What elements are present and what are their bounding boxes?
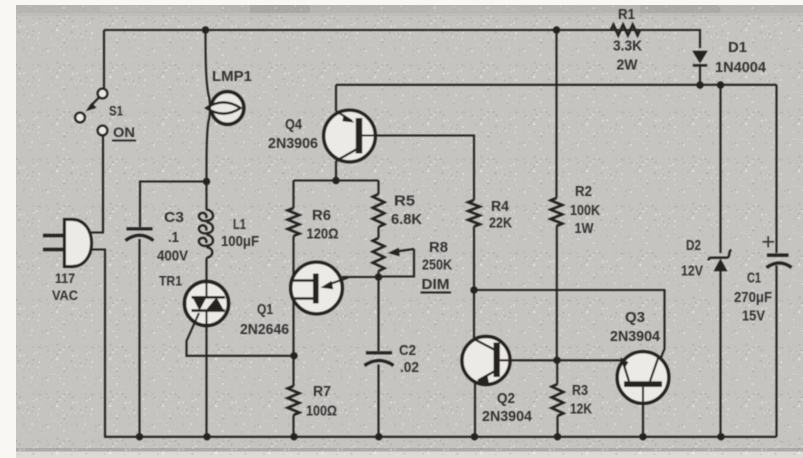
- svg-text:Q2: Q2: [497, 390, 515, 407]
- svg-text:L1: L1: [233, 217, 246, 233]
- label Q2: [497, 390, 515, 407]
- wire R2 lower lead: [556, 226, 558, 360]
- wire C1 lower lead: [775, 266, 777, 437]
- svg-text:D1: D1: [728, 39, 747, 56]
- label D2: [686, 237, 701, 254]
- junction lamp column / top rail: [202, 26, 209, 33]
- label ON: [112, 124, 136, 141]
- resistor R7: [288, 386, 300, 415]
- wire TR1 main column lower: [205, 310, 207, 437]
- label .02: [400, 359, 419, 376]
- label R5: [394, 193, 415, 210]
- label 100uF: [221, 234, 259, 250]
- svg-text:100μF: 100μF: [221, 234, 259, 250]
- junction C3 / bottom rail: [136, 433, 143, 440]
- svg-text:C3: C3: [164, 209, 184, 226]
- junction R4 / Q2 collector node: [470, 286, 477, 293]
- transistor Q2 2N3904: [462, 337, 510, 385]
- wire lamp column: [206, 30, 211, 182]
- junction TR1 / bottom rail: [203, 433, 210, 440]
- label VAC: [52, 288, 78, 303]
- label 1N4004: [715, 59, 767, 76]
- wire C2 upper lead: [377, 277, 379, 351]
- junction R7 / bottom rail: [290, 433, 297, 440]
- transistor Q1 2N2646: [291, 262, 348, 314]
- wire R1 left lead: [610, 29, 612, 31]
- transistor Q4 2N3906: [324, 110, 376, 162]
- resistor R6: [288, 208, 300, 236]
- svg-text:100Ω: 100Ω: [306, 403, 337, 420]
- potentiometer R8: [373, 238, 414, 277]
- label 120ohm: [307, 226, 339, 243]
- svg-text:R4: R4: [491, 198, 510, 215]
- label 2N3904 Q2: [482, 408, 533, 425]
- label R4: [491, 198, 510, 215]
- wire Q2-Q3 collector link: [474, 290, 665, 380]
- svg-text:2W: 2W: [617, 57, 639, 74]
- wire DC rail: [336, 84, 777, 86]
- svg-text:12V: 12V: [681, 263, 703, 280]
- svg-text:12K: 12K: [570, 401, 592, 418]
- wire Q4 collector to node: [335, 161, 337, 181]
- bottom scan edge band: [16, 448, 803, 452]
- wire C3 lower lead: [138, 239, 140, 437]
- capacitor C3: [126, 229, 154, 241]
- junction C2 / bottom rail: [375, 433, 382, 440]
- label 1W: [575, 220, 595, 237]
- svg-text:100K: 100K: [570, 202, 600, 219]
- svg-text:ON: ON: [113, 124, 135, 140]
- svg-text:1N4004: 1N4004: [715, 59, 767, 76]
- svg-text:S1: S1: [109, 103, 123, 119]
- svg-text:Q1: Q1: [257, 302, 273, 318]
- svg-text:D2: D2: [686, 237, 701, 254]
- svg-text:250K: 250K: [422, 257, 452, 274]
- wire R4 lower lead: [473, 227, 475, 291]
- svg-text:6.8K: 6.8K: [391, 211, 422, 228]
- label R8: [429, 239, 448, 256]
- label C2: [399, 342, 416, 359]
- junction gate / R7 node: [290, 352, 297, 359]
- label DIM: [421, 276, 452, 293]
- wire Q4 base lead: [362, 136, 474, 201]
- wire Q1 emitter lead: [342, 276, 379, 278]
- resistor R5: [373, 194, 385, 227]
- svg-text:2N3904: 2N3904: [610, 328, 661, 345]
- wire bottom rail: [104, 436, 777, 438]
- svg-text:1W: 1W: [575, 220, 595, 237]
- svg-text:Q4: Q4: [285, 116, 303, 133]
- svg-text:TR1: TR1: [159, 273, 182, 289]
- label Q4: [285, 116, 303, 133]
- label 12K: [570, 401, 592, 418]
- label L1: [233, 217, 246, 233]
- wire C1 upper lead: [775, 85, 777, 253]
- junction R2 column / top rail: [553, 26, 560, 33]
- junction D2 / bottom rail: [717, 433, 724, 440]
- inductor L1: [199, 210, 213, 259]
- label R3: [572, 382, 588, 399]
- wire Q2 emitter lead: [474, 382, 476, 437]
- wire top rail: [104, 29, 700, 31]
- svg-text:400V: 400V: [157, 248, 188, 265]
- label C1 plus: [763, 236, 775, 247]
- label 6.8K: [391, 211, 422, 228]
- svg-text:3.3K: 3.3K: [613, 38, 642, 55]
- svg-text:15V: 15V: [742, 308, 765, 325]
- label 270uF: [734, 289, 772, 306]
- label C1: [747, 270, 761, 287]
- junction lamp / C3 node: [203, 178, 210, 185]
- svg-text:.1: .1: [168, 229, 179, 246]
- label 2N3904 Q3: [610, 328, 661, 345]
- label R7: [313, 383, 331, 400]
- svg-text:2N3906: 2N3906: [268, 135, 318, 152]
- wire plug hot lead: [91, 136, 103, 233]
- resistor R1: [611, 25, 640, 35]
- wire R6 lower column: [292, 236, 294, 356]
- label R6: [312, 207, 331, 224]
- wire plug neutral lead: [91, 250, 105, 437]
- wire TR1 gate lead: [187, 313, 295, 356]
- label TR1: [159, 273, 182, 289]
- resistor R4: [468, 200, 480, 227]
- svg-text:LMP1: LMP1: [212, 69, 252, 85]
- wire Q2 collector lead: [473, 290, 475, 340]
- junction D2 / DC rail: [717, 81, 724, 88]
- label Q3: [625, 309, 645, 326]
- wire L1 upper lead: [205, 182, 207, 211]
- svg-text:R3: R3: [572, 382, 588, 399]
- wire D2 lower lead: [719, 271, 721, 437]
- wire R5 upper lead: [377, 181, 379, 195]
- label Q1: [257, 302, 273, 318]
- wire L1-TR1 lead: [205, 258, 207, 283]
- wire R1 right lead: [640, 30, 700, 48]
- wire C3 branch: [140, 182, 207, 228]
- wire TR1 MT2 lead: [205, 283, 207, 298]
- svg-text:R5: R5: [394, 193, 415, 210]
- svg-text:120Ω: 120Ω: [307, 226, 339, 243]
- svg-text:2N2646: 2N2646: [240, 322, 289, 338]
- wire Q2 base lead: [500, 359, 623, 361]
- junction R2-R3 / base link: [553, 357, 560, 364]
- plug P1 117VAC: [43, 220, 92, 267]
- svg-text:2N3904: 2N3904: [482, 408, 533, 425]
- wire S1 lower lead: [102, 136, 104, 233]
- label 22K: [489, 215, 512, 232]
- label 2W: [617, 57, 639, 74]
- label 2N3906: [268, 135, 318, 152]
- diode D1 1N4004: [692, 51, 707, 66]
- wire R2 upper lead: [555, 30, 557, 198]
- wire R5-R8 link: [377, 227, 379, 238]
- resistor R3: [552, 384, 564, 416]
- wire R3 lower lead: [556, 416, 558, 437]
- svg-text:C1: C1: [747, 270, 761, 287]
- label 117: [55, 271, 75, 286]
- label D1: [728, 39, 747, 56]
- junction Q3 / bottom rail: [639, 433, 646, 440]
- wire S1 upper lead: [103, 30, 105, 89]
- label 400V: [157, 248, 188, 265]
- label C3: [164, 209, 184, 226]
- wire R7 link: [292, 356, 294, 386]
- label R2: [575, 183, 592, 200]
- wire Q4 emitter lead: [335, 85, 337, 111]
- resistor R2: [551, 198, 563, 226]
- label R1: [618, 7, 635, 23]
- wire R3 upper lead: [556, 360, 558, 384]
- label 250K: [422, 257, 452, 274]
- switch S1: [75, 89, 107, 136]
- junction Q2 emitter / bottom rail: [471, 433, 478, 440]
- label 2N2646: [240, 322, 289, 338]
- junction Q4 collector node: [332, 177, 339, 184]
- lamp LMP1: [207, 92, 244, 125]
- svg-text:R1: R1: [618, 7, 635, 23]
- wire R6 upper lead: [292, 181, 294, 209]
- transistor Q3 2N3904: [617, 352, 669, 404]
- svg-text:R2: R2: [575, 183, 592, 200]
- label LMP1: [212, 69, 252, 85]
- svg-text:DIM: DIM: [422, 276, 450, 293]
- svg-text:VAC: VAC: [52, 288, 78, 303]
- junction R8 / C2 node: [375, 273, 382, 280]
- label 100ohm: [306, 403, 337, 420]
- capacitor C2: [365, 353, 394, 366]
- wire R6-R5 crossbar: [294, 179, 379, 181]
- label 12V: [681, 263, 703, 280]
- junction D1 / DC rail: [696, 81, 703, 88]
- svg-text:R7: R7: [313, 383, 331, 400]
- svg-text:270μF: 270μF: [734, 289, 772, 306]
- label 15V: [742, 308, 765, 325]
- svg-text:.02: .02: [400, 359, 419, 376]
- wire D1 cathode lead: [699, 66, 701, 86]
- top scan edge band: [16, 5, 803, 13]
- wire D2 upper lead: [719, 85, 721, 253]
- svg-text:R6: R6: [312, 207, 331, 224]
- wire R7 lower lead: [292, 415, 294, 437]
- capacitor C1 270uF: [767, 255, 792, 267]
- wire Q3 base lead: [642, 387, 644, 437]
- svg-text:117: 117: [55, 271, 75, 286]
- svg-text:C2: C2: [399, 342, 416, 359]
- svg-text:Q3: Q3: [625, 309, 645, 326]
- label 100K: [570, 202, 600, 219]
- wire R8 lower lead: [377, 271, 379, 277]
- junction R3 / bottom rail: [554, 433, 561, 440]
- label .1: [168, 229, 179, 246]
- label S1: [109, 103, 123, 119]
- svg-text:22K: 22K: [489, 215, 512, 232]
- triac TR1: [185, 282, 229, 326]
- svg-text:R8: R8: [429, 239, 448, 256]
- zener diode D2 12V: [709, 250, 732, 271]
- wire C2 lower lead: [377, 365, 379, 437]
- label 3.3K: [613, 38, 642, 55]
